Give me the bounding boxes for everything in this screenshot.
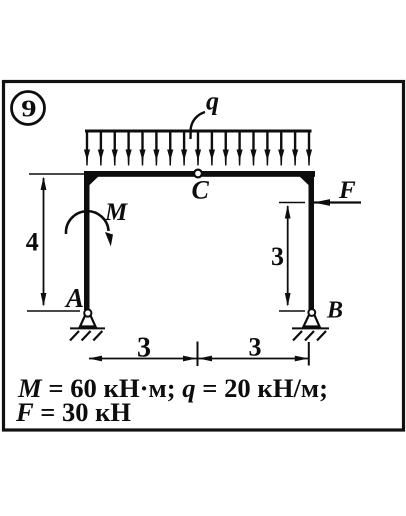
svg-text:B: B (326, 298, 343, 324)
svg-text:9: 9 (21, 95, 36, 121)
svg-text:3: 3 (249, 333, 262, 362)
svg-text:3: 3 (271, 242, 284, 271)
svg-text:F = 30 кН: F = 30 кН (15, 398, 131, 427)
svg-text:3: 3 (137, 333, 151, 364)
svg-text:4: 4 (26, 228, 39, 257)
svg-text:C: C (192, 176, 210, 205)
svg-text:q: q (206, 87, 219, 116)
svg-text:F: F (338, 177, 356, 204)
svg-text:A: A (64, 283, 84, 313)
svg-text:M: M (104, 199, 128, 226)
